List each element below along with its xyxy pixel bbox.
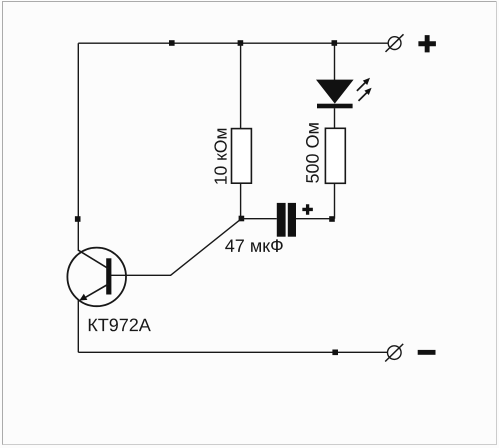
node junction cap-left: [239, 216, 245, 222]
node junction top-a: [169, 40, 175, 46]
wire top rail: [78, 42, 388, 44]
wire R1 bottom lead: [240, 183, 242, 219]
transistor Q1 collector line: [78, 250, 108, 269]
label R2 value: [306, 123, 319, 183]
wire left vertical lower: [77, 300, 79, 353]
transistor Q1 emitter arrow: [79, 294, 87, 301]
resistor R2 500: [325, 128, 345, 183]
wire R2 bottom lead: [334, 183, 336, 218]
wire LED-R2: [334, 108, 336, 129]
label C1 polarity +: [302, 204, 313, 215]
terminal minus: [385, 344, 403, 362]
transistor Q1 base bar: [106, 258, 111, 294]
node junction bottom: [332, 350, 338, 356]
node junction top-c: [332, 40, 338, 46]
LED VD1 arrow 2: [359, 88, 372, 101]
label C1 value: [225, 239, 283, 252]
wire left vertical: [77, 43, 79, 251]
label +: [418, 35, 435, 52]
wire cap right lead: [296, 218, 335, 220]
terminal plus: [386, 34, 404, 52]
capacitor C1 plate left: [277, 203, 286, 237]
wire base horizontal: [111, 274, 171, 276]
LED VD1 arrow 1: [357, 78, 370, 91]
capacitor C1 plate right: [288, 203, 296, 237]
node junction top-b: [238, 40, 244, 46]
transistor Q1 body circle: [67, 248, 126, 307]
wire LED top lead: [334, 43, 336, 80]
transistor Q1 emitter line: [84, 284, 109, 298]
wire base diagonal: [171, 219, 242, 276]
resistor R1 10k: [232, 129, 252, 184]
wire base-cap horizontal: [241, 218, 276, 220]
LED VD1 triangle: [316, 80, 354, 104]
node junction cap-right: [329, 216, 335, 222]
label Q1 type: [89, 319, 151, 332]
wire R1 top lead: [240, 43, 242, 129]
LED VD1 cathode bar: [317, 104, 353, 109]
label -: [418, 350, 436, 355]
label R1 value: [214, 129, 226, 184]
wire bottom rail: [78, 351, 387, 353]
node junction left: [75, 216, 81, 222]
